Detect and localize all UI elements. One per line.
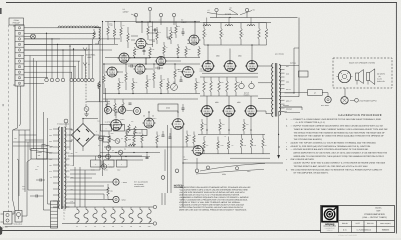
svg-text:100K: 100K bbox=[205, 82, 208, 84]
svg-text:FAN: FAN bbox=[35, 169, 38, 171]
tube V4A bbox=[183, 67, 194, 78]
wire mid horizontals bbox=[100, 152, 160, 154]
wire T1 secondary feed 3 bbox=[70, 187, 109, 190]
wire cathode bus row2 bbox=[198, 133, 265, 135]
resistor R53 cathode bbox=[219, 119, 221, 122]
wire input screen vertical bbox=[99, 27, 101, 170]
wire dashed standby bbox=[85, 67, 87, 107]
wire connector row stub F bbox=[88, 44, 90, 78]
wire output row end arrow bbox=[281, 162, 284, 164]
wire R4 connect bbox=[93, 29, 95, 31]
jack J3 input 2 bbox=[118, 106, 125, 113]
wire heater bus lower bbox=[136, 22, 271, 24]
fuse F1 bbox=[15, 211, 22, 223]
wire fan from connector J1 bbox=[24, 27, 101, 29]
resistor R46 grid bbox=[210, 77, 212, 81]
wire left links A bbox=[13, 141, 44, 143]
wire bias row bbox=[87, 101, 111, 103]
terminal E3 bbox=[172, 13, 175, 16]
wire heater drops bbox=[206, 18, 208, 27]
wire grid bus row bbox=[200, 76, 258, 78]
wire T2 primary mid bbox=[258, 82, 273, 84]
resistor R49 grid bbox=[235, 77, 237, 81]
svg-text:V3: V3 bbox=[94, 226, 96, 228]
svg-text:BRN: BRN bbox=[286, 82, 289, 84]
svg-text:10Ω: 10Ω bbox=[204, 124, 207, 126]
tube V5B driver bbox=[144, 118, 154, 128]
resistor R35 bbox=[141, 130, 143, 134]
title block col rule 3 bbox=[376, 221, 378, 233]
resistor R34 bbox=[133, 132, 135, 135]
jack J5 arrow top bbox=[83, 48, 87, 51]
wire AC bottom bus bbox=[5, 226, 58, 228]
resistor R37 bbox=[186, 131, 188, 135]
wire drop from pin10 bbox=[30, 56, 48, 77]
transformer T1 primary taps bbox=[53, 128, 60, 130]
connector J1 terminal strip body bbox=[15, 25, 24, 86]
wire T1 left feed vertical 2 bbox=[48, 118, 51, 204]
wire T1 secondary feed 2 bbox=[70, 185, 105, 187]
tube V12 output bbox=[246, 106, 257, 117]
tube V2B bbox=[156, 56, 165, 65]
tube V5A driver bbox=[111, 120, 122, 131]
jack J13 bias test bbox=[106, 154, 111, 159]
test point jacks TP1-TP4 bbox=[45, 78, 49, 82]
wire stage B cathode bus bbox=[103, 93, 200, 95]
svg-text:+: + bbox=[105, 127, 106, 130]
coil L1 vertical bbox=[99, 29, 101, 41]
capacitor C1 bbox=[143, 50, 146, 52]
lamp I1 pilot bbox=[31, 34, 36, 39]
svg-text:(TO) POWER SUPPLY: (TO) POWER SUPPLY bbox=[360, 99, 378, 102]
wire AC wiring 2 bbox=[17, 159, 19, 211]
svg-text:7,2: 7,2 bbox=[63, 216, 65, 218]
wire driver plate links bbox=[116, 112, 122, 119]
svg-text:450V: 450V bbox=[117, 170, 120, 172]
ampeg logo company line bbox=[324, 225, 337, 227]
bridge rectifier D1-D4 bbox=[72, 124, 95, 147]
terminal T1 aux circle bbox=[64, 119, 68, 123]
resistor R5 bbox=[107, 22, 109, 27]
wire driver vertical 2 bbox=[170, 128, 172, 193]
svg-text:OF THE AMPLIFIER, OR 300 WA: OF THE AMPLIFIER, OR 300 WATTS. bbox=[294, 172, 329, 175]
wire T1 heater feed bbox=[70, 203, 76, 207]
resistor R70 bbox=[147, 22, 149, 27]
wire center riser 2 bbox=[145, 58, 147, 65]
svg-text:BLK: BLK bbox=[50, 129, 53, 131]
svg-text:15K: 15K bbox=[189, 135, 191, 137]
resistor R6 bbox=[114, 22, 116, 29]
svg-text:6.8K: 6.8K bbox=[152, 49, 155, 51]
wire second heater row bbox=[164, 149, 166, 171]
wire stage C top bus bbox=[103, 98, 198, 100]
svg-text:10: 10 bbox=[205, 136, 207, 138]
resistor R36 bbox=[156, 132, 158, 135]
svg-text:100K: 100K bbox=[221, 82, 224, 84]
svg-text:12AU7: 12AU7 bbox=[152, 118, 157, 120]
jack J6 arrow bottom bbox=[83, 63, 87, 66]
wire orange lead bbox=[280, 106, 302, 108]
svg-text:ADJUST OUTPUT 60 BY WAY 0.5 AN: ADJUST OUTPUT 60 BY WAY 0.5 AND CORRECT … bbox=[294, 162, 386, 165]
svg-text:V8: V8 bbox=[130, 226, 132, 228]
svg-text:BLK 2.7: BLK 2.7 bbox=[286, 89, 291, 91]
svg-text:ORANGE: ORANGE bbox=[283, 105, 289, 107]
svg-text:56K: 56K bbox=[178, 26, 180, 28]
svg-text:TO: TO bbox=[37, 166, 39, 168]
wire V7 plate to T2 bbox=[259, 65, 273, 67]
connector J1 pins 1-11 bbox=[18, 27, 20, 29]
capacitor C9 coupling bbox=[182, 107, 185, 109]
wire screen bus bbox=[204, 44, 267, 46]
resistor R15 bbox=[185, 46, 187, 47]
wire feedback drop bbox=[293, 48, 295, 93]
svg-text:.02: .02 bbox=[169, 30, 171, 32]
wire plate bus stage A bbox=[105, 21, 200, 23]
svg-text:10Ω: 10Ω bbox=[244, 145, 247, 147]
svg-text:10K: 10K bbox=[163, 79, 165, 81]
resistor R57 sense bbox=[251, 134, 253, 138]
svg-text:GRY: GRY bbox=[49, 165, 52, 167]
resistor R31 bbox=[122, 99, 124, 103]
wire T1 left feed vertical 1 bbox=[43, 112, 50, 210]
svg-text:100: 100 bbox=[131, 121, 133, 123]
wire bridge right bbox=[95, 134, 100, 136]
svg-text:6.3 VAC: 6.3 VAC bbox=[225, 13, 232, 16]
svg-text:— VOLTAGE INVERTER BALANCE CON: — VOLTAGE INVERTER BALANCE CONTROL ADJUS… bbox=[291, 148, 369, 151]
svg-text:47K: 47K bbox=[159, 20, 161, 22]
wire bridge top bbox=[83, 119, 98, 124]
svg-text:ORANGE: ORANGE bbox=[286, 108, 292, 110]
svg-text:V9: V9 bbox=[139, 226, 141, 228]
capacitor C17 line filter bbox=[39, 179, 41, 182]
wire V2 plate up bbox=[194, 22, 196, 35]
svg-text:FUSE: FUSE bbox=[22, 189, 26, 191]
svg-text:RATINGS: RATINGS bbox=[290, 63, 296, 65]
transformer T2 secondary winding bbox=[279, 65, 281, 116]
resistor R38 bbox=[193, 132, 195, 135]
svg-text:MQ2: MQ2 bbox=[128, 139, 131, 141]
wire V12 plate to T2 bbox=[258, 111, 273, 114]
wire jack row links bbox=[112, 109, 119, 111]
tube V11 output bbox=[224, 106, 235, 117]
svg-text:GRN: GRN bbox=[49, 135, 52, 137]
svg-text:THE AMPEG CO. INC.: THE AMPEG CO. INC. bbox=[325, 228, 336, 230]
box bias network bbox=[158, 104, 178, 111]
svg-text:(V9A — OUTPUT TUBES): (V9A — OUTPUT TUBES) bbox=[362, 216, 386, 219]
svg-text:470: 470 bbox=[222, 34, 224, 36]
resistor R11 bbox=[156, 27, 158, 31]
wire bus left vertical 2 bbox=[33, 58, 35, 149]
wire cathode return bus bbox=[198, 153, 270, 155]
capacitor C13 box bbox=[104, 160, 115, 167]
wire speaker box drop bbox=[344, 88, 346, 96]
plug PL1 speaker bbox=[341, 97, 348, 104]
wire AC wiring 1 bbox=[12, 211, 14, 214]
tube V3A bbox=[107, 67, 117, 77]
svg-text:THE LOAD RESISTOR SHOULD BE AB: THE LOAD RESISTOR SHOULD BE ABLE TO REGI… bbox=[291, 168, 383, 171]
resistor R24 bbox=[167, 78, 169, 81]
resistor R47 grid bbox=[218, 77, 220, 81]
terminal small TP7 bbox=[98, 84, 101, 87]
speaker LS3 cone bbox=[367, 73, 370, 81]
resistor R8 bbox=[127, 27, 129, 33]
wire fan extension 1 bbox=[24, 38, 120, 40]
ground chassis arrow bbox=[278, 111, 280, 155]
resistor R25 bbox=[174, 64, 176, 70]
resistor R10 bbox=[149, 46, 151, 49]
terminal E4 bbox=[215, 8, 218, 11]
svg-text:6.3V: 6.3V bbox=[71, 165, 74, 167]
wire T1 secondary feed 1 bbox=[70, 181, 113, 183]
capacitor C20 bbox=[154, 29, 156, 32]
resistor R12 bbox=[163, 42, 165, 45]
svg-text:Q2: Q2 bbox=[121, 138, 123, 140]
capacitor C3 bbox=[180, 79, 183, 81]
wire stage A mid links bbox=[131, 39, 135, 41]
svg-text:SW1: SW1 bbox=[14, 138, 17, 140]
wire tap yellow out bbox=[285, 112, 301, 114]
ampeg logo spiral bbox=[324, 208, 336, 220]
resistor R22 bbox=[153, 64, 155, 72]
resistor R52 cathode bbox=[201, 119, 203, 122]
svg-text:LINDEN, N.J.: LINDEN, N.J. bbox=[327, 229, 334, 231]
title block row rule bbox=[339, 225, 395, 227]
terminal E13 bbox=[161, 176, 165, 180]
box feedback network bbox=[299, 71, 309, 77]
terminal TP8 bbox=[98, 155, 101, 158]
title block col rule 2 bbox=[363, 221, 365, 233]
ground symbol below M1 bbox=[86, 111, 88, 114]
resistor R30 bbox=[114, 99, 116, 103]
svg-text:470: 470 bbox=[242, 34, 244, 36]
fuse F2 box bbox=[308, 90, 323, 96]
capacitor C7 coupling bbox=[130, 65, 132, 68]
wire screen bus upper bbox=[203, 22, 267, 24]
resistor R28 jack bbox=[98, 81, 101, 89]
terminal E7 bbox=[195, 169, 199, 173]
svg-text:100K: 100K bbox=[237, 82, 240, 84]
svg-text:9080255: 9080255 bbox=[382, 228, 389, 231]
svg-text:C-7529/09080213: C-7529/09080213 bbox=[357, 228, 371, 231]
coil hum balance horizontal bbox=[58, 26, 99, 27]
wire T1 primary bottom bbox=[50, 207, 53, 227]
jack J14 spkr aux bbox=[101, 164, 106, 169]
resistor R32 bbox=[108, 132, 110, 135]
ampeg logo frame bbox=[322, 207, 337, 222]
connector row CN2 sockets bbox=[70, 78, 73, 81]
svg-text:10Ω: 10Ω bbox=[254, 145, 257, 147]
transistor Q4 bbox=[118, 150, 123, 155]
tube V7 output bbox=[203, 61, 214, 72]
svg-text:WIPER ARM TO LOAD RESISTOR, TH: WIPER ARM TO LOAD RESISTOR, THEN (ADJUST… bbox=[294, 155, 385, 158]
wire bridge bottom bbox=[82, 147, 84, 152]
wire grid stopper row bbox=[131, 35, 138, 37]
svg-text:47K: 47K bbox=[159, 32, 161, 34]
potentiometer R50 bias bbox=[239, 83, 244, 88]
wire heater wavy to V7 bbox=[200, 164, 265, 172]
jack J12 speaker bbox=[113, 196, 119, 202]
svg-text:THE REAR OF THE CABINET BY USI: THE REAR OF THE CABINET BY USING THE SPA… bbox=[294, 135, 385, 138]
terminal E11 bbox=[206, 166, 209, 169]
wire left feeds to T1 bbox=[30, 148, 53, 153]
wire top row feed bbox=[44, 27, 58, 29]
wire heater twisted pair V9 bbox=[240, 11, 252, 15]
resistor R26 bbox=[195, 78, 197, 81]
wire bridge left bbox=[69, 134, 72, 136]
tube V6B half bbox=[193, 146, 203, 156]
wire supply verticals to heater bbox=[74, 167, 76, 203]
svg-text:V5: V5 bbox=[103, 226, 105, 228]
svg-text:10Ω: 10Ω bbox=[246, 124, 249, 126]
svg-text:10Ω: 10Ω bbox=[222, 124, 225, 126]
svg-text:Q3: Q3 bbox=[112, 150, 114, 152]
svg-text:P. TRANSFORMER: P. TRANSFORMER bbox=[57, 124, 69, 126]
wire heater bus upper bbox=[210, 17, 298, 19]
svg-text:100K: 100K bbox=[150, 26, 153, 28]
potentiometer R27 balance bbox=[171, 84, 178, 91]
resistor R56 sense bbox=[241, 134, 243, 138]
tube V9 output bbox=[247, 61, 258, 72]
capacitor C2 bbox=[167, 37, 169, 40]
svg-text:RED: RED bbox=[49, 141, 52, 143]
svg-text:V10: V10 bbox=[148, 226, 151, 228]
wire supply left drop bbox=[69, 150, 71, 156]
box driver board label bbox=[127, 130, 147, 136]
svg-text:BRN: BRN bbox=[49, 153, 52, 155]
capacitor C12 box bbox=[91, 160, 102, 167]
wire stage B links bbox=[117, 71, 123, 73]
transformer T1 primary winding bbox=[58, 127, 59, 209]
svg-text:100K: 100K bbox=[188, 49, 191, 51]
wire fuse to jack bbox=[322, 93, 328, 97]
svg-text:100K: 100K bbox=[221, 145, 224, 147]
wire supply horizontals bbox=[70, 169, 100, 171]
resistor R18 bbox=[118, 78, 120, 81]
terminal E12 bbox=[235, 167, 238, 170]
resistor R61 bbox=[134, 126, 137, 135]
wire fan extension 3 bbox=[24, 49, 112, 51]
svg-text:2.2K: 2.2K bbox=[135, 82, 138, 84]
resistor R20 bbox=[132, 78, 134, 81]
box relay K1 bbox=[103, 137, 110, 143]
resistor R59 divider bbox=[228, 137, 230, 141]
wire output row2 grids bbox=[206, 96, 208, 106]
svg-text:+: + bbox=[108, 163, 109, 166]
title block col rule 1 bbox=[351, 221, 353, 233]
svg-text:THE COOLING FAN BLADES.): THE COOLING FAN BLADES.) bbox=[294, 138, 323, 141]
wire driver vertical 1 bbox=[167, 125, 169, 193]
capacitor C21 bbox=[182, 31, 185, 33]
svg-text:5V: 5V bbox=[71, 141, 73, 143]
transformer T1 secondary winding bbox=[64, 127, 66, 209]
wire fan extension 2 bbox=[24, 43, 118, 45]
speaker LS2 cone bbox=[356, 73, 359, 80]
wire bias drops bbox=[98, 88, 100, 102]
svg-text:12DW7: 12DW7 bbox=[123, 11, 129, 14]
wire left horizontal links bbox=[13, 129, 30, 131]
svg-text:ONLY DRIVER METHOD:: ONLY DRIVER METHOD: bbox=[291, 158, 315, 161]
connector J1 label box bbox=[9, 18, 24, 25]
dashed box speaker system bbox=[333, 58, 392, 88]
svg-text:GRN 2.7: GRN 2.7 bbox=[286, 101, 292, 103]
wire heater twisted pair V8 bbox=[229, 9, 238, 15]
svg-text:TESTING POINTS A B&C, ADJUST: TESTING POINTS A B&C, ADJUST VR₂ FOR ZER… bbox=[294, 165, 369, 168]
wire driver vertical 3 bbox=[182, 125, 184, 207]
svg-text:10: 10 bbox=[225, 136, 227, 138]
resistor R17 bbox=[103, 64, 105, 74]
wire filter caps top bbox=[95, 156, 97, 160]
resistor R44 screen bbox=[266, 23, 268, 29]
jack J11 speaker bbox=[113, 179, 119, 185]
tube V8 output bbox=[225, 61, 236, 72]
svg-text:+: + bbox=[95, 163, 96, 166]
resistor R4 top-left bbox=[93, 31, 96, 39]
transistor Q3 bbox=[106, 146, 111, 151]
svg-text:WHT: WHT bbox=[49, 171, 52, 173]
wire output row1 plates bbox=[207, 45, 209, 61]
coil heater V7 bbox=[203, 25, 211, 26]
svg-text:4 + 5 OF CONNECTOR A₀ (1-1): 4 + 5 OF CONNECTOR A₀ (1-1) bbox=[296, 121, 326, 124]
meter M1 bias bbox=[84, 107, 89, 112]
svg-text:V7: V7 bbox=[121, 226, 123, 228]
capacitor C11 filter can bbox=[114, 125, 125, 132]
wire tap mid out 2 bbox=[285, 96, 300, 98]
resistor R63 damp bbox=[107, 187, 110, 196]
resistor R60 bbox=[128, 124, 131, 133]
svg-text:EACH SVT SPEAKER SYSTEM: EACH SVT SPEAKER SYSTEM bbox=[349, 62, 375, 65]
title block logo divider bbox=[338, 206, 340, 233]
svg-text:2N3055: 2N3055 bbox=[100, 135, 105, 137]
wire strip bottom drops bbox=[13, 86, 18, 130]
svg-text:47K: 47K bbox=[231, 145, 233, 147]
terminal E8 supply bbox=[355, 98, 359, 102]
transformer T2 core bbox=[274, 63, 276, 117]
resistor R58 divider bbox=[217, 137, 219, 141]
wire return bus stub bbox=[230, 157, 270, 159]
svg-text:BLU: BLU bbox=[49, 159, 52, 161]
wire heater wavy to V8 bbox=[196, 169, 264, 174]
wire heater row bottom bus bbox=[62, 223, 153, 225]
resistor R16 bbox=[198, 46, 200, 47]
wire cathode drops bbox=[206, 116, 208, 134]
transformer T1 secondary taps bbox=[65, 128, 70, 130]
svg-text:RED: RED bbox=[71, 153, 74, 155]
svg-text:POWER AMPLIFIER: POWER AMPLIFIER bbox=[364, 213, 385, 216]
capacitor C6 bbox=[169, 136, 172, 138]
resistor R71 bbox=[175, 22, 177, 26]
wire J14 feed bbox=[100, 166, 101, 168]
wire T1 hv lower bbox=[70, 139, 73, 141]
resistor R33 bbox=[125, 130, 127, 134]
resistor R40 screen bbox=[203, 23, 205, 29]
svg-text:+: + bbox=[118, 127, 119, 130]
label V1A halo bbox=[131, 14, 136, 16]
resistor R54 cathode bbox=[243, 119, 245, 122]
svg-text:PREAMP: PREAMP bbox=[13, 22, 21, 25]
svg-text:7,2: 7,2 bbox=[63, 219, 65, 221]
tube V10 output bbox=[202, 106, 213, 117]
wire top center links bbox=[148, 32, 158, 34]
wire T1 hv upper bbox=[70, 129, 73, 131]
title block outline bbox=[321, 206, 395, 233]
wire left vertical x28 bbox=[27, 142, 29, 190]
wire heater twisted pair V7 bbox=[207, 13, 238, 15]
svg-text:470K: 470K bbox=[110, 25, 113, 27]
transformer T2 secondary taps bbox=[280, 64, 285, 66]
wire stage B top bus bbox=[103, 63, 200, 65]
switch S1 box bbox=[31, 149, 47, 160]
svg-text:ADJUST THE TOP (EF) CONTROL 0.: ADJUST THE TOP (EF) CONTROL 0.1 VOLTS BE… bbox=[291, 141, 377, 144]
